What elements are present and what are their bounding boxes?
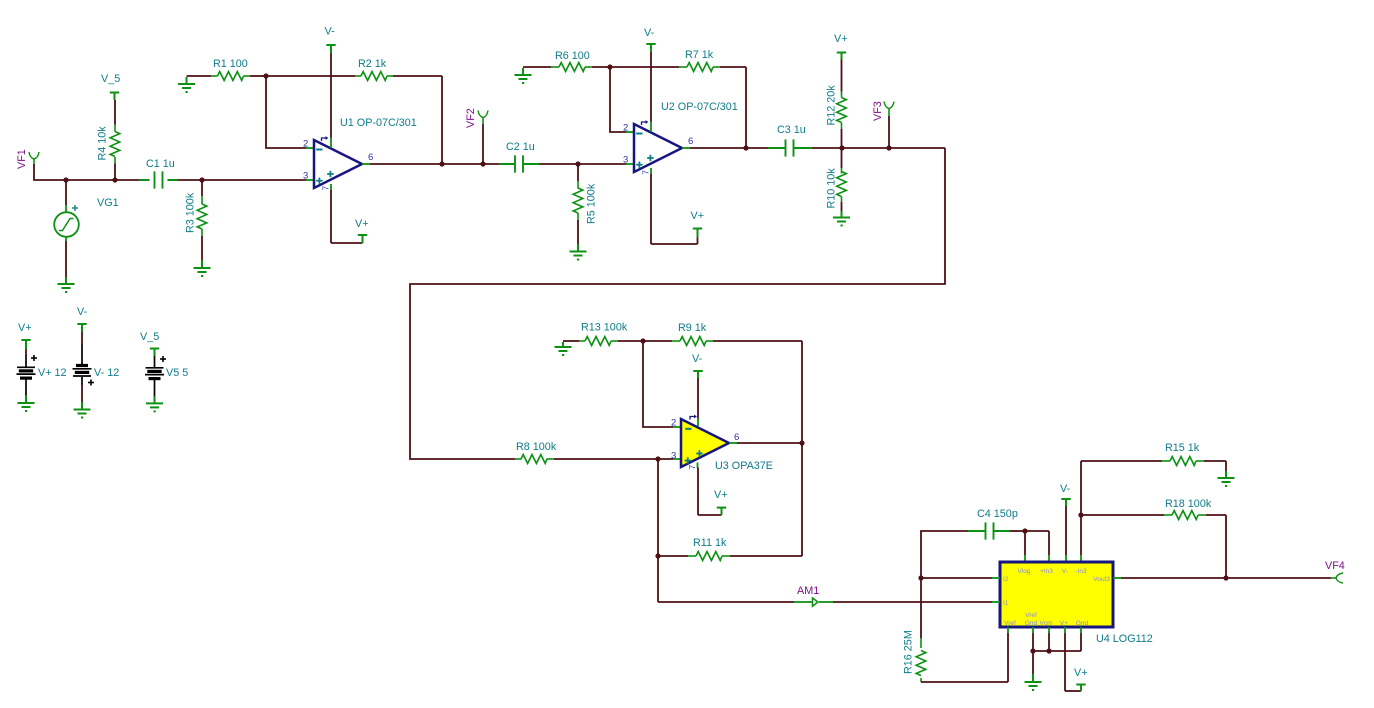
svg-text:AM1: AM1 bbox=[797, 585, 819, 597]
wire junction Gnd1 bbox=[1030, 648, 1035, 653]
wire V- to U2 top bbox=[650, 52, 652, 122]
capacitor C2 1u bbox=[499, 163, 515, 165]
capacitor C3 1u bbox=[768, 147, 785, 149]
wire junction at VG1 bbox=[63, 177, 68, 182]
wire C2 to U2 pin3 bbox=[539, 163, 626, 165]
svg-text:R4 10k: R4 10k bbox=[97, 126, 109, 161]
wire C4 to +In3 pin bbox=[1025, 530, 1049, 532]
svg-text:C1 1u: C1 1u bbox=[146, 158, 175, 170]
resistor R6 100 bbox=[523, 66, 551, 68]
U4 I1 stub bbox=[992, 601, 1000, 603]
resistor R13 100k bbox=[563, 340, 579, 342]
U4 Vout3 stub bbox=[1113, 577, 1121, 579]
resistor R16 25M bbox=[920, 578, 922, 638]
wire U3 V+ lead bbox=[697, 468, 699, 516]
U4 Gnd2 wire bbox=[1080, 627, 1082, 633]
svg-text:Vout3: Vout3 bbox=[1093, 576, 1110, 583]
svg-text:R6 100: R6 100 bbox=[555, 50, 590, 62]
svg-text:7: 7 bbox=[321, 186, 331, 191]
svg-text:I1: I1 bbox=[1003, 600, 1009, 607]
wire junction R2/output bbox=[439, 161, 444, 166]
wire C4 to Vlog pin bbox=[1024, 531, 1026, 555]
U1 V- pin stub bbox=[330, 138, 332, 149]
power V+ bar below U1 bbox=[358, 234, 367, 236]
resistor R12 20k bbox=[841, 53, 843, 60]
wire junction U3 pin3 bbox=[655, 456, 660, 461]
wire V- to U4 bbox=[1065, 506, 1067, 555]
wire R7 down to output bbox=[745, 67, 747, 148]
svg-text:U2 OP-07C/301: U2 OP-07C/301 bbox=[661, 101, 738, 113]
svg-text:3: 3 bbox=[671, 451, 676, 462]
power V- bar above U1 bbox=[326, 44, 335, 46]
node VF1 pin bbox=[29, 152, 39, 159]
svg-text:R13 100k: R13 100k bbox=[581, 322, 628, 334]
svg-text:V+: V+ bbox=[1060, 620, 1068, 627]
resistor R1 100 bbox=[187, 75, 212, 77]
svg-text:Gnd: Gnd bbox=[1076, 620, 1089, 627]
svg-text:V5 5: V5 5 bbox=[166, 367, 188, 379]
svg-text:V-: V- bbox=[77, 306, 88, 318]
wire junction R11 left bbox=[655, 553, 660, 558]
resistor R15 1k bbox=[1081, 460, 1162, 462]
wire V- to U3 top bbox=[697, 378, 699, 419]
wire junction R1/R2/pin2 bbox=[263, 73, 268, 78]
svg-text:VF4: VF4 bbox=[1325, 560, 1345, 572]
svg-text:R10 10k: R10 10k bbox=[826, 168, 838, 209]
op-amp U3 OPA37E bbox=[681, 419, 729, 467]
power V+ bar below U2 bbox=[693, 228, 702, 230]
svg-text:Vcm: Vcm bbox=[1040, 620, 1053, 627]
svg-text:V-: V- bbox=[325, 26, 336, 38]
svg-text:7: 7 bbox=[687, 465, 697, 470]
U2 plus mark at pin3 bbox=[636, 164, 642, 166]
wire junction Vcm bbox=[1046, 648, 1051, 653]
resistor R5 100k bbox=[577, 164, 579, 181]
svg-text:C4 150p: C4 150p bbox=[977, 508, 1018, 520]
wire U2 V+ lead bbox=[650, 174, 652, 244]
svg-text:R9 1k: R9 1k bbox=[678, 322, 707, 334]
svg-text:+In3: +In3 bbox=[1040, 568, 1053, 575]
wire to ground symbol bbox=[1032, 651, 1034, 674]
svg-text:R12 20k: R12 20k bbox=[826, 85, 838, 126]
svg-text:V_5: V_5 bbox=[101, 73, 120, 85]
svg-text:U3 OPA37E: U3 OPA37E bbox=[715, 460, 773, 472]
svg-text:R15 1k: R15 1k bbox=[1165, 442, 1200, 454]
svg-text:3: 3 bbox=[303, 171, 308, 182]
wire to ammeter bbox=[658, 601, 794, 603]
wire junction R5 bbox=[575, 161, 580, 166]
U1 plus mark at pin3 bbox=[316, 180, 322, 182]
wire to U3 pin 2 bbox=[643, 341, 673, 427]
svg-text:2: 2 bbox=[303, 139, 308, 150]
U2 inner plus mark bbox=[647, 157, 653, 159]
svg-text:R5 100k: R5 100k bbox=[586, 183, 598, 224]
svg-text:V+: V+ bbox=[1074, 667, 1088, 679]
wire junction C4 right bbox=[1022, 528, 1027, 533]
wire to U2 pin 2 bbox=[610, 67, 626, 132]
svg-text:C3 1u: C3 1u bbox=[777, 124, 806, 136]
power V+ bar above R12 bbox=[837, 52, 846, 54]
wire I2 to C4 node bbox=[921, 577, 992, 579]
wire U1 V+ lead bbox=[330, 190, 332, 243]
svg-text:V-: V- bbox=[1060, 483, 1071, 495]
U1 minus mark bbox=[316, 149, 322, 151]
power V_5 bar above R4 bbox=[110, 92, 119, 94]
wire R9 down to output bbox=[801, 341, 803, 443]
U3 plus mark at pin3 bbox=[685, 460, 691, 462]
ammeter AM1 bbox=[794, 601, 812, 603]
U3 V- pin stub bbox=[697, 418, 699, 426]
svg-text:V+ 12: V+ 12 bbox=[38, 367, 67, 379]
svg-text:R18 100k: R18 100k bbox=[1165, 498, 1212, 510]
svg-text:VF2: VF2 bbox=[465, 108, 477, 128]
wire to U1 pin 2 bbox=[266, 76, 306, 148]
svg-text:VF3: VF3 bbox=[872, 101, 884, 121]
ground at R13 left bbox=[562, 342, 564, 347]
wire junction R7/output bbox=[743, 145, 748, 150]
svg-text:V+: V+ bbox=[714, 489, 728, 501]
svg-text:U1 OP-07C/301: U1 OP-07C/301 bbox=[340, 117, 417, 129]
svg-text:VG1: VG1 bbox=[97, 197, 119, 209]
svg-text:3: 3 bbox=[623, 155, 628, 166]
U3 pin2 stub bbox=[673, 426, 681, 428]
power V+ bar below U4 bbox=[1076, 684, 1085, 686]
svg-text:Gnd: Gnd bbox=[1025, 620, 1038, 627]
svg-text:V- 12: V- 12 bbox=[94, 367, 119, 379]
IC U4 LOG112 body bbox=[1000, 562, 1113, 627]
power V- bar above U2 bbox=[646, 43, 655, 45]
resistor R9 1k bbox=[643, 340, 672, 342]
wire junction R18/output bbox=[1223, 575, 1228, 580]
wire C1 to U1 pin3 bbox=[178, 179, 306, 181]
wire junction U3 out bbox=[799, 440, 804, 445]
U4 Gnd1 wire bbox=[1032, 627, 1034, 633]
U2 top arrow bbox=[642, 122, 647, 125]
wire pin3 node down bbox=[657, 459, 659, 602]
resistor R3 100k bbox=[201, 180, 203, 196]
svg-text:V-: V- bbox=[1062, 568, 1068, 575]
svg-text:U4 LOG112: U4 LOG112 bbox=[1096, 633, 1153, 645]
svg-text:2: 2 bbox=[623, 123, 628, 134]
svg-text:V+: V+ bbox=[691, 210, 705, 222]
svg-text:VF1: VF1 bbox=[16, 149, 28, 169]
svg-text:V+: V+ bbox=[18, 322, 32, 334]
wire VF1 to input node bbox=[34, 164, 139, 180]
svg-text:V-: V- bbox=[692, 353, 703, 365]
capacitor C4 150p bbox=[921, 531, 968, 578]
svg-text:2: 2 bbox=[671, 418, 676, 429]
wire U2 output bbox=[690, 147, 768, 149]
U1 top arrow bbox=[322, 138, 327, 141]
U2 minus mark bbox=[636, 133, 642, 135]
U1 pin2 stub bbox=[306, 147, 314, 149]
generator VG1 bbox=[54, 212, 79, 237]
U2 output stub bbox=[682, 147, 690, 149]
U4 V+ wire bbox=[1064, 627, 1066, 633]
U3 minus mark bbox=[685, 428, 691, 430]
wire junction R15/R18/-In3 bbox=[1078, 512, 1083, 517]
wire junction C4 left/I2 bbox=[918, 575, 923, 580]
node VF4 pin bbox=[1331, 577, 1337, 579]
svg-text:6: 6 bbox=[368, 152, 373, 163]
resistor R11 1k bbox=[658, 555, 688, 557]
ground below R15 bbox=[1218, 477, 1235, 479]
battery V5 5 bbox=[150, 348, 159, 350]
wire junction R6/R7/pin2 bbox=[607, 64, 612, 69]
ground at R1 left bbox=[186, 77, 188, 84]
U1 V+ pin stub bbox=[330, 184, 332, 191]
svg-text:-In3: -In3 bbox=[1075, 568, 1087, 575]
svg-text:R16 25M: R16 25M bbox=[903, 630, 915, 674]
resistor R2 1k bbox=[266, 75, 355, 77]
wire junction VF2 bbox=[480, 161, 485, 166]
svg-text:6: 6 bbox=[734, 432, 739, 443]
U2 V- pin stub bbox=[650, 122, 652, 133]
VG1 plus mark bbox=[72, 207, 78, 209]
wire V- to U1 top bbox=[330, 53, 332, 138]
wire gnd bus bbox=[1033, 650, 1081, 652]
wire U3 output bbox=[737, 442, 802, 444]
wire AM1 to U4 I1 bbox=[833, 601, 992, 603]
ground below U4 bbox=[1025, 681, 1042, 683]
wire junction VF3 bbox=[886, 145, 891, 150]
wire -In3 pin bbox=[1080, 515, 1082, 555]
svg-text:Vref: Vref bbox=[1025, 612, 1037, 619]
battery V- 12 bbox=[77, 323, 86, 325]
svg-text:I2: I2 bbox=[1003, 576, 1009, 583]
op-amp U2 OP-07C/301 bbox=[634, 124, 682, 172]
U3 pin3 stub bbox=[673, 458, 681, 460]
ground below R3 bbox=[194, 267, 211, 269]
U4 I2 stub bbox=[992, 577, 1000, 579]
ground at R6 left bbox=[522, 68, 524, 75]
U1 pin3 stub bbox=[306, 179, 314, 181]
wire R18 down to output bbox=[1225, 515, 1227, 578]
ground below R10 bbox=[833, 217, 850, 219]
svg-text:C2 1u: C2 1u bbox=[506, 141, 535, 153]
svg-text:V-: V- bbox=[644, 27, 655, 39]
wire junction at R3 bbox=[199, 177, 204, 182]
wire VG1 top lead bbox=[65, 180, 67, 205]
svg-text:R7 1k: R7 1k bbox=[685, 49, 714, 61]
U3 top arrow bbox=[690, 417, 695, 420]
resistor R7 1k bbox=[610, 66, 679, 68]
resistor R10 10k bbox=[841, 148, 843, 168]
svg-text:R2 1k: R2 1k bbox=[358, 58, 387, 70]
U3 output stub bbox=[729, 442, 737, 444]
node VF2 pin bbox=[482, 124, 484, 164]
svg-text:6: 6 bbox=[688, 136, 693, 147]
U2 V+ pin stub bbox=[650, 168, 652, 175]
svg-text:Vref: Vref bbox=[1004, 620, 1016, 627]
U4 Vcm wire bbox=[1048, 627, 1050, 633]
wire VF3 to feedback bbox=[410, 148, 945, 459]
wire junction at R4 bbox=[112, 177, 117, 182]
wire VG1 bottom lead bbox=[65, 237, 67, 241]
wire R11 right up to output bbox=[801, 443, 803, 556]
wire R15 to R18 node bbox=[1080, 461, 1082, 515]
resistor R4 10k bbox=[114, 164, 116, 181]
svg-text:Vlog: Vlog bbox=[1017, 568, 1030, 575]
capacitor C1 1u bbox=[139, 179, 150, 181]
svg-text:R3 100k: R3 100k bbox=[185, 192, 197, 233]
U2 pin2 stub bbox=[626, 131, 634, 133]
U3 V+ pin stub bbox=[697, 463, 699, 469]
wire junction R12/R10 bbox=[839, 145, 844, 150]
svg-text:7: 7 bbox=[641, 170, 651, 175]
power V- bar above U3 bbox=[693, 370, 702, 372]
node VF3 pin bbox=[888, 116, 890, 148]
ground below VG1 bbox=[58, 283, 75, 285]
wire U1 output bbox=[370, 163, 499, 165]
wire C3 to VF3 node bbox=[812, 147, 945, 149]
wire junction R13/R9/pin2 bbox=[640, 338, 645, 343]
op-amp U1 OP-07C/301 bbox=[314, 140, 362, 188]
power V+ bar below U3 bbox=[717, 507, 726, 509]
svg-text:R8 100k: R8 100k bbox=[516, 441, 557, 453]
U1 output stub bbox=[362, 163, 370, 165]
wire Vout3 to VF4 bbox=[1121, 577, 1331, 579]
resistor R18 100k bbox=[1081, 514, 1164, 516]
U2 pin3 stub bbox=[626, 163, 634, 165]
svg-text:R1 100: R1 100 bbox=[213, 58, 248, 70]
U1 inner plus mark bbox=[327, 173, 333, 175]
ground below R5 bbox=[570, 251, 587, 253]
svg-text:V+: V+ bbox=[834, 33, 848, 45]
svg-text:V_5: V_5 bbox=[140, 331, 159, 343]
svg-text:V+: V+ bbox=[355, 218, 369, 230]
power V- bar above U4 bbox=[1061, 498, 1070, 500]
U3 inner plus mark bbox=[696, 453, 702, 455]
resistor R8 100k bbox=[515, 458, 522, 460]
wire R2 down to output bbox=[441, 76, 443, 164]
battery V+ 12 bbox=[21, 339, 30, 341]
svg-text:R11 1k: R11 1k bbox=[693, 537, 727, 549]
